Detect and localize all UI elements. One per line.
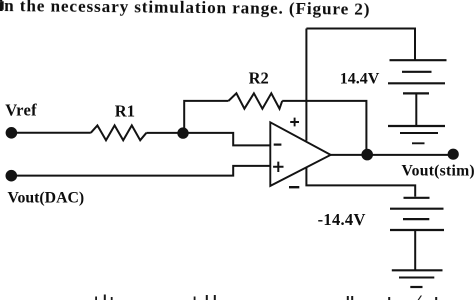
svg-text:in the necessary stimulation r: in the necessary stimulation range. (Fig… [0, 0, 370, 19]
battery B2 plate short1 [404, 197, 430, 199]
battery B1 plate long1 [390, 59, 447, 61]
svg-text:Vout(DAC): Vout(DAC) [8, 190, 85, 207]
node Vref terminal [6, 127, 18, 139]
wire B1 to ground [415, 93, 417, 125]
svg-text:-14.4V: -14.4V [318, 210, 366, 229]
ground G2 bar3 [410, 286, 422, 288]
battery B1 plate short2 [403, 92, 429, 94]
ground G2 bar2 [399, 277, 434, 279]
wire R2 to output node (feedback) [282, 101, 366, 155]
resistor R2 [229, 93, 283, 108]
op-amp inverting input minus sign [274, 144, 282, 146]
svg-text:R1: R1 [115, 102, 135, 121]
wire V+ pin up to top rail [305, 29, 307, 141]
resistor R1 [91, 125, 147, 140]
wire V- pin to battery B2 [306, 167, 415, 196]
node Vout(stim) terminal [448, 149, 459, 160]
svg-text:R2: R2 [249, 69, 269, 88]
battery B2 plate long1 [390, 208, 444, 210]
node junction R1/R2 [177, 127, 188, 138]
ground G1 bar3 [412, 142, 425, 144]
ground G2 bar1 [392, 269, 443, 271]
wire op-amp output [331, 154, 453, 156]
svg-text:Vout(stim): Vout(stim) [402, 163, 474, 180]
ground G1 bar2 [400, 132, 438, 134]
battery B2 plate long2 [390, 229, 444, 231]
ground G1 bar1 [388, 125, 445, 127]
svg-text:Vref: Vref [5, 100, 37, 119]
wire B2 to ground [414, 230, 416, 270]
node output junction [361, 149, 373, 161]
wire top rail to battery B1 [306, 29, 415, 61]
battery B1 plate short1 [402, 71, 432, 73]
op-amp positive supply plus sign [290, 118, 299, 127]
caption text bottom: cut-off ascender fragments of next line [95, 295, 437, 300]
node Vout(DAC) terminal [6, 170, 18, 182]
op-amp negative supply minus sign [289, 186, 299, 188]
battery B2 plate short2 [403, 218, 429, 220]
battery B1 plate long2 [388, 82, 445, 84]
op-amp U1 [270, 122, 330, 186]
wire Vref to R1 [11, 132, 91, 134]
wire Vout(DAC) to non-inverting input (steps up at x=233) [11, 166, 270, 176]
wire junction up to R2 [184, 101, 228, 133]
op-amp non-inverting input plus sign [273, 162, 283, 172]
caption text top: "in the necessary stimulation range. (Figure 2)" [0, 0, 370, 19]
svg-text:14.4V: 14.4V [340, 71, 380, 88]
wire R1 to inverting input (steps down at x=233) [146, 133, 270, 146]
